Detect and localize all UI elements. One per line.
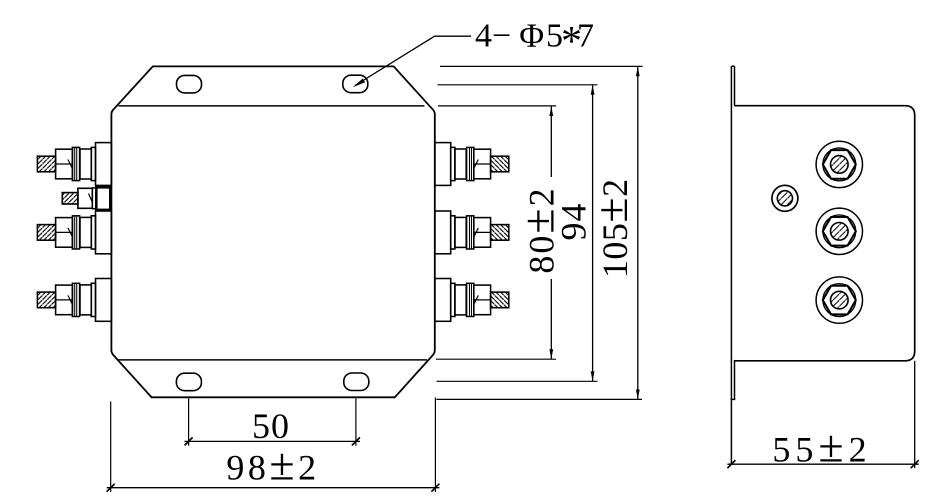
dimension line 98±2 bbox=[107, 487, 440, 489]
tick 50 left bbox=[185, 437, 193, 445]
ext line 50 right bbox=[355, 399, 357, 446]
filter body outline (top view) bbox=[111, 66, 434, 397]
side view right ext line 55 bbox=[914, 361, 916, 468]
ext line 98 right bbox=[434, 398, 436, 493]
ext line 50 left bbox=[188, 399, 190, 446]
dimension line 50 bbox=[185, 440, 361, 442]
dimension line 55±2 bbox=[727, 463, 918, 465]
side view flange strip right edge bottom segment bbox=[734, 360, 736, 400]
dimension line 105±2 bbox=[636, 67, 640, 400]
mounting hole bottom-right bbox=[344, 373, 369, 391]
dimension line 80±2 bbox=[549, 106, 553, 359]
side view flange strip left edge bbox=[730, 66, 732, 464]
ext line 105 bottom bbox=[436, 398, 642, 400]
svg-text:105±2: 105±2 bbox=[586, 178, 637, 278]
top flange fold line bbox=[119, 105, 425, 107]
terminal L4 bbox=[37, 279, 111, 322]
leader arrowhead bbox=[353, 79, 365, 88]
ext line 98 left bbox=[110, 402, 112, 493]
terminal R2 bbox=[435, 211, 509, 254]
side view flange strip bottom cap bbox=[731, 398, 736, 400]
round terminal 1 bbox=[816, 141, 862, 187]
bottom flange fold line bbox=[118, 359, 427, 361]
ext line 94 bottom bbox=[437, 380, 598, 382]
ground screw bbox=[772, 185, 798, 211]
tick 55 right bbox=[911, 460, 919, 468]
ext line 80 bottom bbox=[436, 358, 556, 360]
tick 55 left bbox=[727, 460, 735, 468]
mounting hole bottom-left bbox=[176, 373, 201, 391]
side view flange strip top cap bbox=[731, 65, 734, 67]
svg-text:98±2: 98±2 bbox=[226, 439, 319, 490]
svg-text:4−Φ5*7: 4−Φ5*7 bbox=[475, 17, 594, 65]
terminal L2 (ground stud) bbox=[62, 187, 110, 210]
dimension line 94 bbox=[591, 85, 595, 381]
round terminal 3 bbox=[816, 277, 862, 323]
ext line 94 top bbox=[438, 84, 598, 86]
round terminal 2 bbox=[816, 208, 862, 254]
terminal L3 bbox=[37, 211, 111, 254]
tick 98 right bbox=[431, 484, 439, 492]
tick 98 left bbox=[107, 484, 115, 492]
terminal R1 bbox=[435, 143, 509, 186]
terminal L1 bbox=[37, 143, 111, 186]
leader line 4-phi5*7 bbox=[355, 36, 471, 85]
side view body outline bbox=[735, 106, 915, 361]
mounting hole top-right bbox=[343, 75, 368, 93]
terminal R3 bbox=[435, 279, 509, 322]
tick 50 right bbox=[352, 437, 360, 445]
ext line 105 top bbox=[440, 65, 643, 67]
ext line 80 top bbox=[438, 105, 556, 107]
mounting hole top-left bbox=[177, 75, 202, 93]
svg-text:55±2: 55±2 bbox=[772, 421, 871, 472]
side view flange strip right edge top segment bbox=[734, 66, 736, 106]
